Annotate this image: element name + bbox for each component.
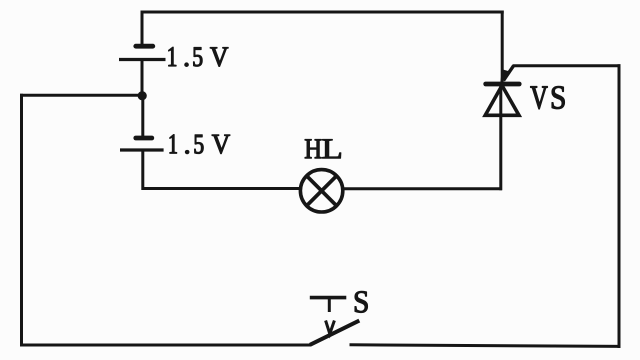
wire: lamp right lead: [343, 187, 502, 190]
battery B1 long thin plate: [119, 58, 166, 61]
thyristor VS gate arrowhead: [500, 69, 511, 85]
wire: bottom rail right: [350, 345, 621, 347]
thyristor VS triangle: [485, 86, 519, 116]
lamp HL circle: [300, 170, 342, 212]
junction node dot: [138, 91, 147, 100]
wire: thyristor lower lead: [499, 84, 502, 190]
switch S lever: [310, 321, 359, 345]
wire: thyristor anode lead: [501, 11, 504, 84]
wire: battery B1 top lead: [141, 12, 144, 46]
battery B2 short thick plate: [136, 136, 152, 141]
wire: junction to left rail: [20, 94, 142, 97]
wire: junction to battery B2: [141, 95, 144, 137]
label 1.5V (B1): [169, 47, 229, 66]
wire: left rail: [20, 94, 23, 347]
wire: battery B2 to lamp: [143, 150, 300, 189]
battery B1 short thick plate: [136, 44, 153, 49]
battery B2 long thin plate: [120, 148, 164, 151]
wire: battery B1 to junction: [141, 60, 144, 101]
wire: top rail: [141, 11, 504, 14]
label S: [355, 291, 368, 312]
wire: gate lead diagonal: [504, 66, 514, 81]
wire: gate rail top horizontal: [513, 64, 621, 67]
label HL: [305, 139, 341, 158]
wire: bottom rail left: [20, 344, 311, 347]
label 1.5V (B2): [170, 135, 230, 154]
lamp HL cross line 1: [306, 175, 337, 206]
thyristor VS cathode bar: [486, 82, 520, 87]
switch S button stem: [328, 299, 331, 313]
lamp HL cross line 2: [306, 175, 337, 206]
switch S button cap: [310, 296, 347, 300]
label VS: [531, 86, 565, 109]
switch S stem fork: [326, 321, 335, 334]
wire: gate rail right vertical: [618, 64, 621, 348]
